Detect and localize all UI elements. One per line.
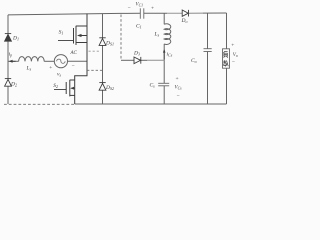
svg-text:VCs: VCs xyxy=(175,86,183,91)
svg-text:vs: vs xyxy=(57,72,61,78)
svg-text:+: + xyxy=(49,65,52,71)
svg-text:−: − xyxy=(128,6,131,12)
svg-text:AC: AC xyxy=(70,51,78,56)
svg-text:Ls: Ls xyxy=(26,66,32,72)
svg-text:−: − xyxy=(72,63,75,69)
svg-text:−: − xyxy=(232,60,235,66)
svg-text:+: + xyxy=(231,43,234,49)
svg-text:DS2: DS2 xyxy=(105,85,114,91)
svg-text:D2: D2 xyxy=(10,82,17,88)
svg-text:D1: D1 xyxy=(12,36,19,42)
svg-text:Ls: Ls xyxy=(154,32,160,38)
svg-text:Cs: Cs xyxy=(150,83,156,89)
svg-text:Do: Do xyxy=(181,18,188,24)
svg-text:D3: D3 xyxy=(133,51,140,57)
svg-text:Vo: Vo xyxy=(233,53,238,58)
svg-text:S2: S2 xyxy=(53,83,58,89)
svg-text:S1: S1 xyxy=(59,29,64,35)
svg-text:iCs: iCs xyxy=(167,52,173,58)
svg-text:ip: ip xyxy=(9,52,13,58)
svg-text:+: + xyxy=(176,76,179,82)
svg-text:C1: C1 xyxy=(136,24,142,30)
svg-text:−: − xyxy=(177,94,180,100)
svg-text:Co: Co xyxy=(191,58,197,64)
svg-text:VC1: VC1 xyxy=(136,3,144,8)
svg-text:+: + xyxy=(151,6,154,12)
svg-text:DS1: DS1 xyxy=(105,41,114,47)
